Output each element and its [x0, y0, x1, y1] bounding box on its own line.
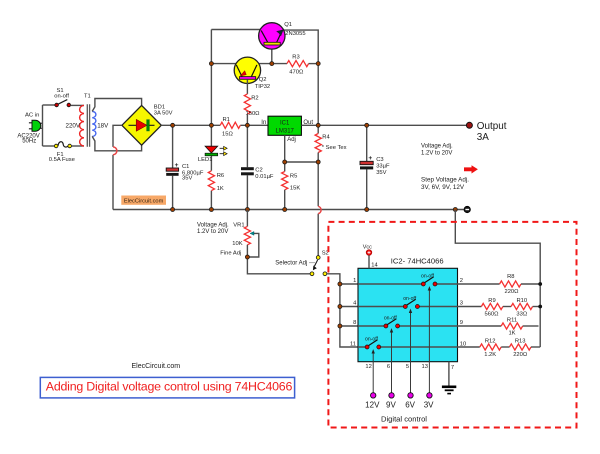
svg-text:220Ω: 220Ω: [513, 352, 528, 358]
wire: pin8 stub: [340, 325, 358, 327]
svg-text:AC in: AC in: [25, 112, 39, 118]
wire: Out line to output terminal: [301, 124, 466, 126]
node: bus R8 junction: [538, 282, 542, 286]
svg-text:13: 13: [422, 364, 428, 370]
svg-text:3V: 3V: [424, 401, 434, 410]
resistor R6 1K: [208, 171, 224, 192]
wire: R10 to bus: [533, 306, 541, 308]
resistor R1 15ohm: [220, 117, 240, 137]
svg-text:10K: 10K: [232, 241, 242, 247]
secondary coil 18V: [92, 111, 96, 136]
svg-text:Adding Digital voltage control: Adding Digital voltage control using 74H…: [46, 380, 293, 394]
control line 12V to SW4: [372, 349, 375, 395]
power: Vcc: [363, 244, 372, 255]
wire: secondary top to bridge: [92, 99, 141, 112]
wire: ground rail: [113, 209, 464, 211]
node: bus pin1 junction: [338, 282, 342, 286]
wire: rail to VR1: [246, 210, 248, 227]
wire: row pin8-9 inside: [358, 325, 458, 327]
svg-text:6V: 6V: [405, 401, 415, 410]
svg-text:on-off: on-off: [384, 315, 398, 321]
wire: Q1 emitter down to node: [271, 45, 273, 64]
wire: ground rail to divider bus: [455, 210, 540, 348]
resistor R9 560ohm: [481, 298, 502, 318]
capacitor C1 6800uF: [166, 162, 204, 181]
svg-text:R1: R1: [223, 117, 230, 123]
svg-text:3V, 6V, 9V, 12V: 3V, 6V, 9V, 12V: [421, 184, 465, 191]
node: ground R5: [283, 208, 287, 212]
wire: C3 column: [366, 125, 368, 209]
svg-text:on-off: on-off: [54, 94, 69, 100]
svg-text:560Ω: 560Ω: [484, 312, 499, 318]
wire: R13 to bus corner: [531, 346, 540, 348]
svg-text:0.5A Fuse: 0.5A Fuse: [49, 157, 75, 163]
svg-text:Fine Adj: Fine Adj: [220, 250, 241, 256]
svg-text:3A 50V: 3A 50V: [154, 111, 173, 117]
wire: C2 column: [246, 125, 248, 209]
wire: to fuse F1: [43, 145, 55, 147]
wire: Vcc to pin 14: [368, 255, 370, 268]
terminal: output minus: [464, 206, 470, 212]
svg-text:R5: R5: [290, 173, 297, 179]
terminal: 3V: [427, 393, 432, 398]
wire: row pin1-2 inside: [358, 283, 458, 285]
svg-text:12V: 12V: [365, 401, 380, 410]
svg-text:R11: R11: [507, 318, 517, 324]
svg-text:IC1: IC1: [280, 120, 290, 126]
node: C3/Out junction: [365, 123, 369, 127]
svg-text:VR1: VR1: [233, 223, 244, 229]
svg-text:8: 8: [353, 320, 356, 326]
svg-text:C3: C3: [376, 157, 383, 163]
svg-text:11: 11: [350, 341, 356, 347]
capacitor C3 33uF: [360, 155, 390, 176]
svg-text:ElecCircuit.com: ElecCircuit.com: [124, 198, 164, 204]
svg-text:1: 1: [353, 278, 356, 284]
wire: secondary bottom to bridge: [92, 136, 141, 150]
terminal: 6V: [408, 393, 413, 398]
resistor R4: [315, 125, 347, 152]
core lines: [87, 104, 89, 147]
bridge rectifier BD1: [122, 105, 173, 146]
svg-text:R13: R13: [515, 339, 526, 345]
wire: R5 to ground rail: [284, 190, 286, 210]
svg-text:R6: R6: [217, 173, 224, 179]
arrow: step voltage adj: [464, 165, 478, 173]
wire: left top rail to Q1: [211, 30, 260, 126]
control line 3V to SW1: [428, 286, 431, 395]
svg-text:In: In: [261, 120, 266, 126]
IC U2 74HC4066 body: [358, 256, 458, 361]
wire: C1 column: [172, 125, 174, 209]
potentiometer VR1 10K: [220, 223, 258, 258]
svg-text:R12: R12: [485, 339, 496, 345]
svg-text:on-off: on-off: [365, 336, 379, 342]
wire: pin10 to R12: [458, 346, 480, 348]
switch SW1 on-off (pins 1-2): [421, 273, 437, 286]
node: bus R10 junction: [538, 305, 542, 309]
capacitor C2 0.01uF: [241, 167, 274, 180]
svg-text:TIP32: TIP32: [255, 84, 270, 90]
IC regulator U1 LM317: [261, 116, 313, 143]
node: ground R6: [209, 208, 213, 212]
wire: F1 to transformer primary bottom: [72, 145, 85, 147]
svg-text:6: 6: [387, 364, 390, 370]
wire: pin9 to R11: [458, 325, 502, 327]
wire: main + rail from bridge: [161, 124, 268, 126]
svg-text:1K: 1K: [508, 331, 515, 337]
svg-text:5: 5: [406, 364, 409, 370]
svg-text:1.2V to 20V: 1.2V to 20V: [421, 150, 452, 156]
svg-text:1.2K: 1.2K: [484, 352, 496, 358]
svg-text:R10: R10: [516, 298, 527, 304]
wire: R12 to R13: [501, 346, 509, 348]
svg-text:LM317: LM317: [276, 128, 295, 134]
wire: row pin4-3 inside: [358, 306, 458, 308]
wire: VR1 bottom to selector: [247, 245, 310, 274]
svg-text:35V: 35V: [376, 170, 386, 176]
transformer T1: [66, 94, 110, 147]
wire: R2 to main rail: [246, 114, 248, 125]
wire: R8 to bus: [521, 283, 540, 285]
LED LED1: [198, 146, 227, 163]
wire: S1 to transformer primary: [71, 104, 84, 106]
svg-text:+: +: [175, 162, 179, 169]
ground: [442, 387, 456, 394]
terminal: 9V: [389, 393, 394, 398]
resistor R5 15K: [282, 172, 301, 192]
wire: pin 7 to ground: [448, 362, 450, 386]
node: left rail Q2 junction: [209, 62, 213, 66]
switch SW2 on-off (pins 4-3): [403, 296, 419, 309]
node: ground C1: [171, 208, 175, 212]
title box: [40, 377, 294, 398]
wire: R11 end: [523, 325, 539, 327]
badge: ElecCircuit.com: [121, 196, 166, 205]
wire: R9 to R10: [503, 306, 511, 308]
svg-text:33µF: 33µF: [376, 163, 390, 169]
wire: R4 bottom to Adj node, vertical continues with hop over ground rail: [317, 153, 319, 256]
svg-text:9V: 9V: [386, 401, 396, 410]
switch S2 selector: [310, 251, 329, 276]
transistor Q2 TIP32: [234, 57, 270, 90]
wire: pin3 to R9: [458, 306, 482, 308]
terminal: Output +: [466, 122, 472, 128]
terminal: 12V: [371, 393, 376, 398]
svg-text:ElecCircuit.com: ElecCircuit.com: [132, 363, 181, 370]
svg-text:1.2V to 20V: 1.2V to 20V: [197, 229, 228, 235]
svg-text:Q1: Q1: [284, 22, 292, 28]
svg-text:R3: R3: [292, 55, 299, 61]
svg-text:Voltage Adj.: Voltage Adj.: [421, 143, 453, 149]
svg-text:on-off: on-off: [403, 296, 417, 302]
wire: Q2 emitter to R2: [246, 79, 248, 94]
node: R2 junction: [245, 123, 249, 127]
svg-text:R8: R8: [507, 274, 514, 280]
node: R4/Out junction: [316, 123, 320, 127]
resistor R13 220ohm: [510, 339, 531, 359]
svg-text:R4: R4: [322, 135, 330, 141]
resistor R8 220ohm: [500, 274, 521, 295]
node: bridge+ / C1 junction: [171, 123, 175, 127]
control line 9V to SW3: [390, 328, 393, 395]
svg-text:14: 14: [371, 263, 378, 269]
wire hop over ground rail: [318, 206, 321, 213]
svg-text:Output: Output: [477, 121, 507, 132]
wire: row pin11-10 inside: [358, 346, 458, 348]
svg-text:2N3055: 2N3055: [285, 31, 305, 37]
junction dots on rails: [171, 62, 458, 212]
svg-text:15K: 15K: [290, 185, 300, 191]
wire: LED column: [210, 125, 212, 209]
wire: R3 to right vertical: [309, 63, 319, 65]
resistor R2 150ohm: [244, 94, 260, 117]
node: ground to divider bus: [453, 208, 457, 212]
node: bus pin8 junction: [338, 324, 342, 328]
svg-text:470Ω: 470Ω: [289, 69, 304, 75]
svg-text:Vcc: Vcc: [363, 244, 372, 250]
svg-text:R9: R9: [488, 298, 495, 304]
switch SW3 on-off (pins 8-9): [384, 315, 400, 328]
wire hop over secondary wire: [113, 147, 117, 155]
svg-text:LED1: LED1: [198, 157, 213, 163]
svg-text:0.01µF: 0.01µF: [255, 174, 274, 180]
svg-text:R2: R2: [251, 96, 258, 102]
svg-text:15Ω: 15Ω: [222, 132, 233, 138]
wire: pin2 to R8: [458, 283, 500, 285]
node: LED column junction: [209, 123, 213, 127]
svg-text:1K: 1K: [217, 186, 224, 192]
node: Adj junction: [283, 160, 287, 164]
svg-text:Adj: Adj: [287, 137, 296, 143]
wire: pin1 stub: [340, 283, 358, 285]
resistor R11 1K: [501, 318, 522, 337]
control line 6V to SW2: [409, 309, 412, 396]
svg-text:220Ω: 220Ω: [504, 289, 519, 295]
svg-text:+: +: [368, 155, 372, 162]
svg-text:12: 12: [365, 364, 371, 370]
svg-text:* See Tex: * See Tex: [322, 145, 347, 151]
svg-text:Digital control: Digital control: [381, 415, 427, 424]
resistor R10 33ohm: [511, 298, 532, 318]
border: digital control dashed box: [328, 222, 576, 428]
svg-text:220V: 220V: [66, 123, 81, 130]
svg-text:35V: 35V: [182, 176, 192, 182]
svg-text:Step Voltage Adj.: Step Voltage Adj.: [421, 176, 469, 183]
svg-text:IC2- 74HC4066: IC2- 74HC4066: [391, 256, 444, 265]
svg-text:Voltage Adj.: Voltage Adj.: [197, 223, 229, 229]
wire: to switch S1: [43, 104, 55, 106]
wire: pin4 stub: [340, 306, 358, 308]
wire: Q2 base row: [211, 63, 287, 65]
node: bus pin4 junction: [338, 305, 342, 309]
wire: selector to IC2 pin bus: [327, 274, 358, 347]
svg-text:C1: C1: [182, 164, 189, 170]
svg-text:50Hz: 50Hz: [22, 138, 36, 144]
wire: Q1 collector right: [284, 30, 318, 125]
svg-text:7: 7: [451, 365, 454, 371]
svg-text:33Ω: 33Ω: [516, 312, 527, 318]
wire: bridge minus (left vertex) down to ground rail with hop: [113, 125, 122, 209]
switch S1: [54, 88, 70, 107]
node: ground C3: [365, 208, 369, 212]
node: R3 right junction: [316, 62, 320, 66]
wire: Adj pin down and across to R4: [285, 135, 319, 171]
resistor R12 1.2K: [480, 339, 501, 359]
svg-text:T1: T1: [84, 94, 91, 100]
node: VR1 wiper junction: [245, 255, 249, 259]
svg-text:on-off: on-off: [421, 273, 435, 279]
primary coil 220V: [80, 105, 84, 146]
svg-text:Selector Adj ---: Selector Adj ---: [275, 261, 315, 267]
svg-text:Q2: Q2: [259, 77, 267, 83]
switch SW4 on-off (pins 11-10): [365, 336, 381, 349]
resistor R3 470ohm: [287, 55, 309, 76]
svg-text:3A: 3A: [477, 132, 489, 143]
AC plug input: [29, 120, 43, 131]
svg-text:18V: 18V: [97, 123, 109, 130]
wire: input left rail: [42, 105, 44, 146]
node: ground C2/VR1: [245, 208, 249, 212]
node: R4 bottom junction: [316, 160, 320, 164]
fuse F1 0.5A: [49, 142, 75, 163]
node: Q1 emitter junction: [270, 62, 274, 66]
transistor Q1 2N3055: [259, 22, 306, 49]
svg-text:C2: C2: [255, 167, 262, 173]
